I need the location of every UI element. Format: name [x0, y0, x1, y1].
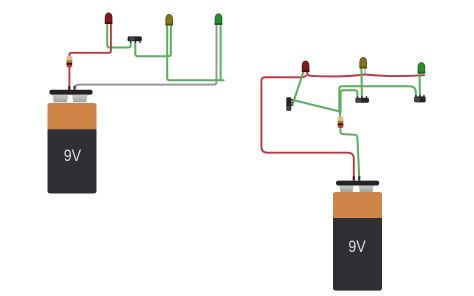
svg-text:9V: 9V [64, 146, 82, 165]
svg-text:9V: 9V [348, 237, 366, 256]
